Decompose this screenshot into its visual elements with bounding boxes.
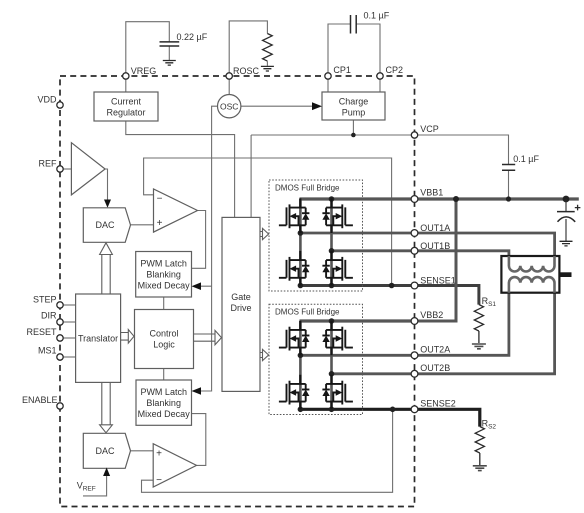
pin VCP (411, 132, 417, 138)
node OUT1A junction (298, 230, 304, 236)
wire cap to CP2 (356, 24, 380, 73)
wire Current Regulator to Gate Drive (126, 121, 235, 217)
svg-text:0.1 µF: 0.1 µF (364, 11, 390, 21)
wire OSC to Charge Pump (241, 105, 313, 107)
pin OUT1B (411, 247, 418, 254)
svg-text:VCP: VCP (420, 124, 439, 134)
transistor Q8 bridge2 bottom-right (322, 375, 353, 410)
open block arrow Gate Drive to bridge 1 (260, 228, 269, 239)
PWM Latch 1 box (136, 252, 192, 298)
transistor Q2 bridge1 top-right (322, 198, 353, 233)
stepper motor body (501, 256, 559, 293)
transistor Q4 bridge1 bottom-right (322, 251, 353, 286)
wire VCP pin to external cap (418, 135, 509, 199)
wire CP1 to Charge Pump (327, 79, 329, 92)
svg-text:Control: Control (149, 329, 178, 339)
wire CP1 to cap (328, 24, 351, 73)
svg-text:−: − (156, 475, 162, 486)
svg-text:OUT2A: OUT2A (420, 344, 450, 354)
svg-text:0.1 µF: 0.1 µF (513, 154, 539, 164)
svg-text:Blanking: Blanking (146, 270, 181, 280)
svg-text:DAC: DAC (95, 446, 115, 456)
node OUT2A junction (298, 353, 304, 359)
wire VREG to Current Regulator (125, 79, 127, 92)
resistor Rs1 (474, 305, 483, 343)
wire buffer to DAC1 (105, 169, 107, 201)
pin RESET (57, 335, 63, 341)
wire VREG to 0.22uF cap (126, 22, 170, 73)
arrow OSC to PWM latch 1 (192, 282, 202, 290)
node OUT2B junction (329, 371, 335, 377)
svg-text:ROSC: ROSC (233, 66, 260, 76)
svg-text:VDD: VDD (37, 95, 57, 105)
wire OUT2A to motor (300, 283, 509, 356)
pin DIR (57, 319, 63, 325)
svg-text:DAC: DAC (95, 220, 115, 230)
capacitor C-VREG 0.22uF (160, 42, 180, 46)
capacitor C-BULK electrolytic (557, 199, 580, 241)
wire DIR to Translator (63, 321, 75, 323)
pin OUT1A (411, 230, 418, 237)
pin CP2 (377, 73, 383, 79)
open block arrow Control Logic to Gate Drive (194, 330, 222, 344)
pin OUT2A (411, 352, 418, 359)
svg-text:RS1: RS1 (482, 296, 497, 308)
wire STEP to Translator (63, 304, 75, 306)
pin REF (57, 166, 63, 172)
arrow VREF to DAC2 (103, 468, 110, 477)
wire VBB2 rail (300, 319, 415, 322)
svg-text:0.22 µF: 0.22 µF (177, 32, 208, 42)
pin SENSE1 (411, 282, 418, 289)
wire VCP to Gate Drive (250, 135, 252, 217)
motor shaft (559, 272, 571, 277)
wire VBB1 to VBB2 (415, 199, 457, 321)
arrow buffer to DAC1 (104, 200, 111, 208)
wire ROSC to resistor (229, 21, 267, 73)
wire PWM latch 1 to Control Logic (163, 297, 165, 310)
svg-text:VBB2: VBB2 (420, 310, 443, 320)
pin OUT2B (411, 370, 418, 377)
wire bridge1 right trunk (330, 199, 333, 286)
motor winding 1 (509, 256, 555, 272)
wire bridge2 right trunk (330, 321, 333, 409)
svg-text:DMOS Full Bridge: DMOS Full Bridge (275, 308, 340, 317)
pin SENSE2 (411, 406, 418, 413)
wire bridge1 left trunk (299, 199, 302, 286)
ground for C-VREG (163, 61, 176, 66)
capacitor C-VCP 0.1uF (502, 165, 515, 171)
transistor Q5 bridge2 top-left (279, 321, 310, 356)
svg-text:DIR: DIR (41, 311, 57, 321)
svg-text:CP1: CP1 (333, 65, 351, 75)
svg-text:Logic: Logic (153, 340, 175, 350)
Current Regulator box (94, 92, 158, 121)
ground for Rs2 (473, 466, 487, 471)
ground for C-BULK (560, 241, 573, 246)
svg-text:ENABLE: ENABLE (22, 395, 58, 405)
IC boundary dashed border (60, 76, 415, 507)
op-amp comparator 1 (154, 189, 198, 232)
pin VBB1 (411, 196, 418, 203)
wire PWM latch 2 to op-amp2 (192, 414, 206, 466)
thick power rails (300, 199, 579, 427)
svg-text:DMOS Full Bridge: DMOS Full Bridge (275, 184, 340, 193)
wire VCP net (251, 134, 411, 136)
svg-text:OUT2B: OUT2B (420, 363, 450, 373)
svg-text:−: − (157, 194, 163, 205)
pin VREG (123, 73, 129, 79)
wire Control Logic to PWM latch 2 (163, 369, 165, 381)
node SENSE1 bridge junctions (298, 283, 304, 289)
op-amp comparator 2 (153, 444, 196, 487)
transistor Q1 bridge1 top-left (279, 198, 310, 233)
svg-text:Blanking: Blanking (146, 398, 181, 408)
svg-text:Regulator: Regulator (106, 108, 145, 118)
svg-text:MS1: MS1 (38, 346, 57, 356)
wire OUT1A to motor (300, 233, 555, 266)
svg-text:REF: REF (39, 159, 58, 169)
arrow OSC to PWM latch 2 (192, 387, 202, 395)
ground for R-ROSC (261, 66, 274, 71)
ground for Rs1 (472, 344, 486, 349)
node VBB2 bridge junction (329, 318, 335, 324)
svg-text:Translator: Translator (78, 334, 118, 344)
pin MS1 (57, 354, 63, 360)
node SENSE2 feedback junction (390, 407, 396, 413)
svg-text:Gate: Gate (231, 292, 251, 302)
buffer amp REF (71, 143, 105, 195)
node VBB1 external junctions (453, 196, 459, 202)
wire SENSE2 rail to Rs2 (300, 409, 480, 426)
pin CP1 (325, 73, 331, 79)
node OUT1B junction (329, 248, 335, 254)
DMOS Full Bridge 1 dotted box (269, 180, 363, 291)
wire CP2 to Charge Pump (379, 79, 381, 92)
svg-text:Mixed Decay: Mixed Decay (138, 409, 191, 419)
Translator box (76, 294, 121, 382)
wire op-amp2 inverting input to SENSE2 (142, 409, 393, 492)
svg-text:Mixed Decay: Mixed Decay (138, 281, 191, 291)
svg-text:PWM Latch: PWM Latch (140, 387, 187, 397)
wire OUT1B to motor (331, 251, 509, 266)
open block arrow Translator to DAC1 (100, 243, 113, 294)
wire DAC2 to op-amp2 (131, 450, 154, 452)
node VBB1 bridge junction (329, 196, 335, 202)
svg-text:OUT1A: OUT1A (420, 223, 450, 233)
svg-text:SENSE2: SENSE2 (420, 398, 456, 408)
pin ROSC (226, 73, 232, 79)
node SENSE1 feedback junction (389, 283, 395, 289)
wire DAC1 to op-amp1 (131, 224, 154, 226)
DAC U1 pentagon (83, 208, 130, 243)
pin VBB2 (411, 318, 418, 325)
DAC U2 pentagon (83, 433, 130, 468)
svg-text:STEP: STEP (33, 295, 57, 305)
node VCP junction (351, 133, 356, 138)
node SENSE2 bridge junctions (298, 407, 304, 413)
open block arrow Translator to Control Logic (121, 330, 134, 344)
arrow OSC to Charge Pump (312, 102, 322, 110)
DMOS Full Bridge 2 dotted box (269, 304, 363, 414)
wire REF pin to buffer (63, 168, 71, 170)
transistor Q7 bridge2 bottom-left (279, 375, 310, 410)
svg-text:OUT1B: OUT1B (420, 241, 450, 251)
wire VREF input (83, 476, 107, 496)
pin STEP (57, 302, 63, 308)
svg-text:Pump: Pump (342, 108, 366, 118)
svg-text:VREG: VREG (131, 66, 157, 76)
svg-text:PWM Latch: PWM Latch (140, 259, 187, 269)
wire bridge2 left trunk (299, 321, 302, 409)
wire VBB1 rail (300, 197, 579, 200)
wire Charge Pump to VCP node (352, 120, 354, 135)
svg-text:VBB1: VBB1 (420, 188, 443, 198)
PWM Latch 2 box (136, 380, 192, 425)
svg-text:VREF: VREF (77, 481, 96, 493)
wire OSC to PWM latches (201, 106, 218, 391)
open block arrow Gate Drive to bridge 2 (260, 349, 269, 360)
svg-text:CP2: CP2 (386, 65, 404, 75)
wire MS1 to Translator (63, 356, 75, 358)
motor winding 2 (509, 277, 555, 293)
resistor Rs2 (475, 427, 484, 465)
svg-text:OSC: OSC (220, 102, 238, 112)
wire op-amp1 inverting input to SENSE1 (144, 158, 392, 286)
svg-text:Drive: Drive (230, 303, 251, 313)
transistor Q3 bridge1 bottom-left (279, 251, 310, 286)
svg-text:SENSE1: SENSE1 (420, 276, 456, 286)
svg-text:+: + (157, 218, 163, 229)
Gate Drive box (222, 217, 260, 391)
Charge Pump box (322, 92, 385, 120)
pin ENABLE (57, 403, 63, 409)
wire ROSC to OSC (228, 79, 230, 94)
wire SENSE1 rail to Rs1 (300, 286, 479, 305)
wire op-amp1 output to PWM latch 1 (192, 211, 206, 269)
svg-text:Current: Current (111, 97, 142, 107)
open block arrow Translator to DAC2 (100, 382, 113, 432)
transistor Q6 bridge2 top-right (322, 321, 353, 356)
wire OUT2B to motor (332, 283, 555, 374)
op-amp OSC circle (218, 95, 241, 118)
svg-text:+: + (156, 449, 162, 460)
svg-text:Charge: Charge (339, 97, 369, 107)
wire RESET to Translator (63, 337, 75, 339)
svg-text:RESET: RESET (26, 327, 57, 337)
resistor R-ROSC (263, 34, 273, 62)
pin VDD (57, 102, 63, 108)
capacitor C-CP 0.1uF (351, 15, 357, 34)
Control Logic box (135, 310, 194, 369)
